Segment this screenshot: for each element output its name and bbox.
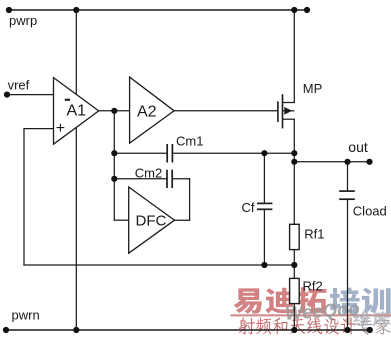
- svg-text:Cf: Cf: [242, 200, 255, 215]
- capacitor Cload: [339, 191, 355, 199]
- svg-text:A1: A1: [67, 103, 87, 120]
- svg-text:+: +: [56, 120, 65, 137]
- amplifier DFC: [129, 187, 175, 253]
- svg-text:DFC: DFC: [136, 212, 167, 229]
- svg-text:out: out: [348, 139, 368, 155]
- capacitor Cm2: [167, 170, 172, 188]
- wire: bottom pwrn rail: [6, 329, 370, 331]
- wire: Cf bottom vertical: [263, 210, 265, 265]
- node: pwrp / A1 supply junction: [73, 7, 79, 13]
- wire: A1 supply vertical pwrp to pwrn (passes behind A1): [75, 10, 77, 330]
- capacitor Cm1: [167, 144, 172, 163]
- resistor Rf2: [290, 278, 300, 303]
- node: Cm2 left junction: [111, 176, 117, 182]
- wire: Rf2 bottom to pwrn rail: [293, 304, 295, 330]
- wire: feedback bottom horizontal to Rf1/Rf2 divider: [24, 264, 294, 266]
- watermark: registered-mark blob: [345, 317, 352, 324]
- watermark: grey slogan tail 专家: [358, 318, 391, 335]
- node: Cf top junction: [261, 150, 267, 156]
- node: pwrp right terminal: [304, 7, 310, 13]
- wire: out node horizontal: [294, 161, 369, 163]
- wire: Cm2 right wire: [172, 178, 189, 180]
- watermark: blue headline 培训: [330, 287, 391, 313]
- node: pwrn right terminal: [367, 327, 373, 333]
- node: pwrn / A1 supply junction: [73, 327, 79, 333]
- svg-text:Cload: Cload: [353, 204, 387, 219]
- wire: A1 output to A2 input: [99, 110, 130, 112]
- node: A1 output junction: [111, 108, 117, 114]
- transistor MP (PMOS): [278, 94, 294, 128]
- wire: vref to A1 inverting input: [7, 94, 54, 96]
- node: Cm1 left junction: [111, 150, 117, 156]
- wire: Cm2 left wire: [114, 178, 167, 180]
- svg-text:MP: MP: [303, 81, 323, 96]
- wire: Cf top vertical: [263, 153, 265, 202]
- svg-text:pwrp: pwrp: [9, 13, 37, 28]
- node: Rf2 bottom junction: [291, 327, 297, 333]
- wire: MP drain vertical from pwrp rail: [293, 10, 295, 103]
- watermark: red slogan 射频和天线设计: [238, 317, 356, 334]
- node: pwrn left terminal: [3, 327, 9, 333]
- resistor Rf1: [290, 224, 300, 249]
- svg-text:Cm2: Cm2: [135, 165, 162, 180]
- watermark: red headline 易迪拓: [234, 287, 327, 314]
- transistor MP bulk arrow: [284, 107, 292, 115]
- wire: feedback left vertical: [23, 129, 25, 265]
- svg-text:pwrn: pwrn: [12, 307, 40, 322]
- node: Rf1/Rf2 divider junction: [291, 262, 297, 268]
- watermark: red underline: [231, 314, 391, 316]
- watermark: grey 维库 characters: [353, 311, 391, 326]
- pin label: A1 inverting input minus: [65, 99, 70, 101]
- wire: Cload top vertical: [347, 162, 349, 191]
- node: Cf bottom / feedback junction: [261, 262, 267, 268]
- node: out terminal: [366, 159, 372, 165]
- wire: DFC input stub: [114, 219, 128, 221]
- wire: node vertical from A1 output down to DFC input: [113, 111, 115, 220]
- wire: Rf1 to Rf2 vertical: [293, 250, 295, 279]
- node: out junction at MP line: [291, 159, 297, 165]
- node: Cload bottom junction: [344, 327, 350, 333]
- op-amp A2: [130, 77, 175, 143]
- wire: A1 non-inverting input stub: [24, 128, 54, 130]
- svg-text:Rf1: Rf1: [304, 227, 324, 242]
- svg-text:Cm1: Cm1: [176, 133, 203, 148]
- node: pwrp left terminal: [6, 7, 12, 13]
- wire: top pwrp rail: [9, 9, 307, 11]
- wire: MP source vertical down to output node: [293, 119, 295, 224]
- node: pwrp / MP junction: [291, 7, 297, 13]
- node: Cload top junction: [344, 159, 350, 165]
- op-amp A1: [54, 78, 99, 145]
- node: Cm1 right junction at MP line: [291, 150, 297, 156]
- wire: Cm2 right vertical down to DFC output: [189, 179, 191, 220]
- wire: A2 output to MP gate: [174, 110, 277, 112]
- svg-text:A2: A2: [137, 104, 157, 121]
- capacitor Cf: [257, 203, 272, 209]
- wire: Cm1 right wire to MP drain line: [172, 152, 294, 154]
- wire: DFC output stub: [175, 219, 190, 221]
- wire: Cload bottom vertical to pwrn rail: [347, 200, 349, 330]
- svg-text:Rf2: Rf2: [303, 279, 323, 294]
- node: vref terminal: [4, 92, 10, 98]
- wire: Cm1 left wire: [114, 152, 167, 154]
- svg-text:vref: vref: [8, 78, 30, 93]
